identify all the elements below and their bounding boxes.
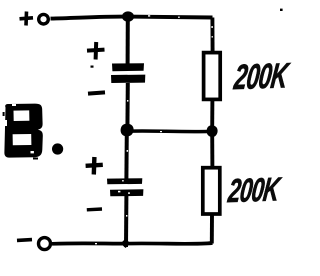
speck near C1 <box>91 66 94 68</box>
node bottom junction <box>121 239 131 248</box>
wire middle horizontal <box>127 129 212 133</box>
wire bottom horizontal <box>52 241 213 246</box>
wire R2 top lead <box>210 135 214 168</box>
C1 polarity + label <box>87 42 105 60</box>
node mid-left junction <box>121 124 134 137</box>
figure label B <box>4 104 42 158</box>
label R2 value 200K <box>226 170 281 210</box>
stray ink speck top right <box>280 9 283 11</box>
C1 polarity − label <box>88 92 105 93</box>
wire C1 bottom lead <box>125 83 129 130</box>
resistor R1 <box>204 53 221 100</box>
minus label at negative input terminal <box>17 238 32 242</box>
node top junction <box>122 11 134 21</box>
period after figure label B <box>52 143 63 154</box>
wire R1 bottom lead <box>210 99 214 127</box>
capacitor C1 bottom plate <box>111 75 145 83</box>
scan texture: white pinholes on strokes <box>95 15 213 244</box>
plus label at positive input terminal <box>20 12 34 26</box>
capacitor C2 bottom plate <box>110 189 143 196</box>
capacitor C1 top plate <box>112 63 144 71</box>
resistor R2 <box>203 168 220 214</box>
wire C1 top lead <box>126 17 130 64</box>
capacitor C2 top plate <box>107 178 142 184</box>
wire right vertical from top wire to R1 <box>210 18 214 54</box>
node mid-right junction <box>207 125 218 137</box>
wire R2 bottom lead <box>210 214 214 244</box>
terminal T1 (positive input) <box>39 14 49 24</box>
terminal T2 (negative input) <box>39 238 51 250</box>
wire C2 top lead <box>124 131 128 179</box>
wire top horizontal <box>51 17 213 19</box>
C2 polarity + label <box>86 157 103 175</box>
wire C2 bottom lead <box>124 196 128 247</box>
label R1 value 200K <box>232 56 289 98</box>
C2 polarity − label <box>87 207 102 211</box>
